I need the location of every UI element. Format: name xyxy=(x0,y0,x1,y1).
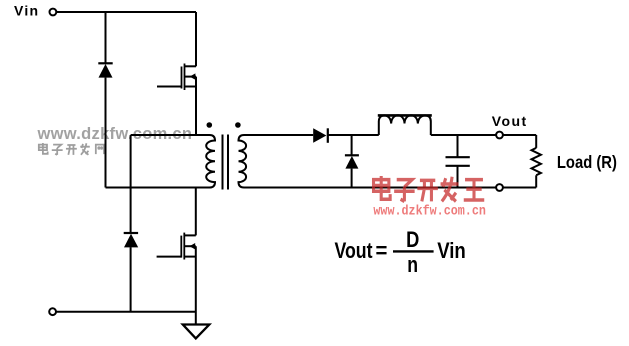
transistor Q1 source lead down to primary top node xyxy=(195,77,197,135)
formula Vout = D/n Vin xyxy=(335,227,466,277)
svg-text:www.dzkfw.com.cn: www.dzkfw.com.cn xyxy=(373,204,486,219)
svg-text:Vout: Vout xyxy=(492,113,527,129)
terminal output return (circle) xyxy=(496,184,503,191)
svg-text:Vin: Vin xyxy=(437,238,466,263)
svg-text:Vin: Vin xyxy=(14,3,38,19)
transistor Q1 gate lead xyxy=(157,86,182,88)
capacitor C top plate xyxy=(446,156,470,158)
load resistor R bottom lead xyxy=(535,175,537,187)
diode D3 rectifier (cathode bar) xyxy=(327,128,329,143)
wire D4 branch upper segment xyxy=(351,135,353,155)
wire D4 branch lower segment xyxy=(351,169,353,188)
diode D3 rectifier (triangle, pointing right) xyxy=(313,128,326,143)
wire secondary top lead to D3 xyxy=(244,134,313,136)
terminal Vin negative (bottom-left circle) xyxy=(49,308,56,315)
transistor Q1 drain stub xyxy=(185,65,197,67)
svg-text:Vout: Vout xyxy=(335,238,374,263)
inductor L top bar xyxy=(378,114,432,117)
wire from return terminal to load bottom xyxy=(503,187,536,189)
transistor Q1 drain lead xyxy=(195,12,197,66)
load resistor R zigzag xyxy=(532,148,541,175)
diode D2 clamp (triangle, pointing up) xyxy=(124,234,138,248)
diode D1 clamp (cathode bar) xyxy=(98,62,112,64)
svg-text:Load (R): Load (R) xyxy=(557,152,617,172)
svg-text:n: n xyxy=(407,252,418,277)
capacitor C branch upper wire xyxy=(457,135,459,157)
watermark red CJK 电子开发王 xyxy=(374,176,485,201)
watermark gray CJK 电子开发网 xyxy=(39,143,104,155)
formula fraction bar xyxy=(393,250,434,252)
transistor Q2 source stub xyxy=(184,256,196,258)
transformer T1 primary polarity dot xyxy=(207,122,213,128)
transformer T1 core lines xyxy=(223,135,229,190)
transistor Q2 body arrow head xyxy=(189,243,195,249)
diode D1 clamp (triangle, pointing up) xyxy=(99,64,113,78)
wire from inductor to Vout terminal xyxy=(431,134,496,136)
inductor L coil with risers xyxy=(379,115,431,135)
transistor Q2 channel bar xyxy=(183,233,185,260)
transformer T1 secondary winding xyxy=(239,135,247,188)
terminal Vout (circle) xyxy=(496,132,503,139)
wire from Vout terminal to load xyxy=(503,134,536,136)
svg-text:=: = xyxy=(376,238,388,263)
wire bottom rail xyxy=(56,311,196,313)
transistor Q1 gate bar xyxy=(181,67,183,89)
diode D4 freewheel (cathode bar) xyxy=(345,154,359,156)
transistor Q2 body arrow stub xyxy=(184,245,196,247)
svg-text:www.dzkfw.com.cn: www.dzkfw.com.cn xyxy=(37,125,193,143)
wire primary top lead (node A) xyxy=(131,134,210,136)
wire D1 branch upper segment xyxy=(105,12,107,63)
diode D4 freewheel (triangle, pointing up) xyxy=(345,156,358,169)
wire top rail from Vin terminal to Q1 drain xyxy=(57,11,197,13)
transistor Q1 channel bar xyxy=(184,64,186,91)
transistor Q2 source lead down to ground xyxy=(195,246,197,324)
wire from D3 cathode to inductor xyxy=(328,134,379,136)
wire secondary bottom lead xyxy=(244,187,496,189)
wire D1 branch lower segment to primary bottom lead xyxy=(105,78,107,188)
capacitor C branch lower wire xyxy=(457,166,459,188)
load resistor R top lead xyxy=(535,135,537,148)
terminal Vin (input + terminal circle) xyxy=(50,9,57,16)
transformer T1 secondary polarity dot xyxy=(235,122,241,128)
diode D2 clamp (cathode bar) xyxy=(124,232,138,234)
transformer T1 primary winding xyxy=(206,135,215,188)
svg-text:D: D xyxy=(406,227,419,252)
transistor Q2 drain lead xyxy=(195,188,197,236)
transistor Q2 gate lead xyxy=(157,256,182,258)
transistor Q1 source stub xyxy=(185,86,197,88)
wire primary bottom lead (node B) xyxy=(106,187,212,189)
transistor Q1 body arrow stub xyxy=(185,76,197,78)
wire D2 branch upper segment xyxy=(130,135,132,233)
transistor Q2 drain stub xyxy=(184,234,196,236)
wire D2 branch lower segment to bottom rail xyxy=(130,247,132,311)
ground symbol xyxy=(183,325,210,339)
capacitor C bottom plate xyxy=(446,165,470,167)
transistor Q1 body arrow head xyxy=(190,73,196,79)
transistor Q2 gate bar xyxy=(180,236,182,258)
